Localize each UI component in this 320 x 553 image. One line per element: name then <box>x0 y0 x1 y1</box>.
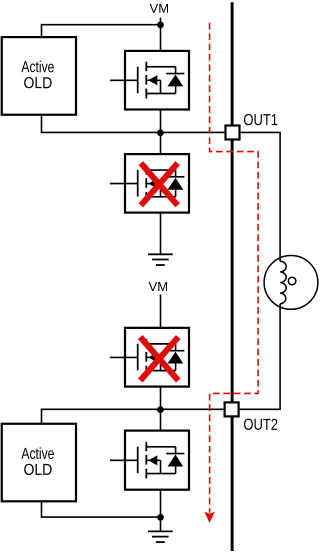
junction dot bottom row <box>157 514 164 521</box>
wire: Active OLD 1 top riser <box>41 24 43 37</box>
svg-text:OUT2: OUT2 <box>243 417 278 434</box>
svg-text:OLD: OLD <box>23 462 52 479</box>
junction dot OUT2 row <box>157 406 164 413</box>
wire: Active OLD 2 top riser <box>41 409 43 424</box>
wire: FET4 source to ground <box>160 474 162 532</box>
Active OLD box 2 <box>2 424 76 502</box>
junction dot OUT1 row <box>157 129 164 136</box>
svg-text:OUT1: OUT1 <box>243 112 278 129</box>
svg-text:OLD: OLD <box>23 75 52 92</box>
wire: Active OLD 2 bottom riser <box>41 501 43 518</box>
svg-text:VM: VM <box>149 279 169 294</box>
wire: OUT1 horizontal left <box>42 131 226 133</box>
motor circle <box>264 256 318 310</box>
wire: VM1 stub above node <box>160 18 162 25</box>
wire: motor bottom to OUT2 <box>239 304 281 410</box>
ground 2 <box>148 531 173 542</box>
wire: OUT2 horizontal left <box>42 408 225 410</box>
FET box 1 (high side 1) <box>125 51 189 110</box>
red dashed current path <box>210 23 259 513</box>
wire: FET2 source to ground <box>160 197 162 255</box>
motor winding coil <box>280 261 286 304</box>
wire: FET3 source to FET4 drain <box>160 371 162 447</box>
VM node dot 1 <box>157 22 164 29</box>
Active OLD box 1 <box>2 37 76 115</box>
red X over FET3 <box>140 337 178 381</box>
wire: VM1 node to FET1 drain <box>160 25 162 67</box>
motor hub circle <box>288 277 296 285</box>
svg-text:Active: Active <box>21 59 54 76</box>
OUT2 terminal square <box>225 402 239 416</box>
red arrowhead <box>204 512 215 523</box>
wire: Active OLD 2 bottom horizontal <box>42 516 161 518</box>
FET box 3 (high side 2, disabled) <box>125 328 189 387</box>
svg-text:Active: Active <box>21 446 54 463</box>
bus line (right vertical) <box>231 2 234 551</box>
wire: OUT1 to motor top <box>240 132 281 261</box>
wire: VM2 to FET3 drain <box>160 294 162 343</box>
FET box 4 (low side 2) <box>125 431 189 490</box>
wire: VM1 feed horizontal <box>42 24 161 26</box>
wire: FET1 source to FET2 drain <box>160 94 162 171</box>
red X over FET2 <box>141 163 178 205</box>
OUT1 terminal square <box>226 126 240 140</box>
svg-text:VM: VM <box>150 1 170 16</box>
wire: Active OLD 1 bottom riser <box>41 115 43 133</box>
FET box 2 (low side 1, disabled) <box>125 154 189 213</box>
ground 1 <box>148 254 173 265</box>
